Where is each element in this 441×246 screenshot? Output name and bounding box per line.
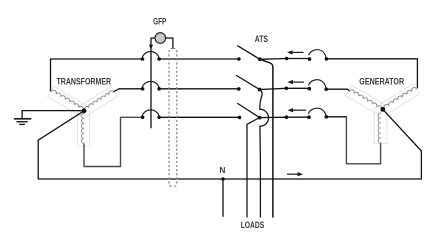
svg-text:N: N (219, 165, 225, 175)
svg-text:LOADS: LOADS (241, 220, 265, 230)
svg-text:GENERATOR: GENERATOR (359, 77, 404, 87)
svg-text:GFP: GFP (153, 16, 166, 26)
svg-text:TRANSFORMER: TRANSFORMER (57, 77, 112, 87)
svg-text:ATS: ATS (255, 34, 268, 44)
